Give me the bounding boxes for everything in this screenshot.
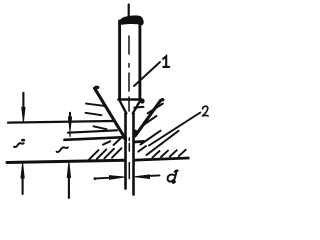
ink blob at left wall / pin junction bbox=[122, 133, 127, 142]
workpiece 2: left section hatch strokes bbox=[89, 150, 99, 160]
workpiece 2: hatch tick right wall middle bbox=[144, 116, 157, 125]
workpiece 2: hatch stroke from right surface end bbox=[141, 131, 161, 145]
ink blob at shoulder right corner bbox=[140, 98, 145, 103]
dimension l_a: lower arrow (points up) bbox=[22, 178, 24, 194]
label l_1 (rotated italic l with subscript) bbox=[14, 143, 24, 147]
workpiece 2: right countersink wall bbox=[135, 100, 163, 136]
workpiece 2: right near-pin hatch stroke bbox=[138, 146, 146, 152]
punch tool 1: cone right edge bbox=[133, 101, 141, 114]
dimension l_a: top extension line bbox=[8, 121, 113, 123]
workpiece 2: bottom surface left bbox=[7, 160, 125, 162]
dimension l: lower arrow (points up) bbox=[68, 178, 70, 198]
punch tool 1: pin left wall bbox=[124, 113, 127, 188]
workpiece 2: left countersink wall bbox=[95, 87, 125, 137]
label 2 bbox=[203, 106, 209, 116]
workpiece 2: hatch tick left of left wall (upper) bbox=[86, 104, 105, 106]
punch tool 1: shoulder line bbox=[118, 98, 141, 101]
workpiece 2: hatch stroke below surface near wall bbox=[103, 141, 110, 144]
dimension l_a: upper arrow (points down) bbox=[22, 93, 24, 108]
ink blob at right wall / pin junction bbox=[133, 130, 138, 136]
workpiece 2: hatch tick right wall upper bbox=[148, 104, 163, 114]
label l (rotated italic l) bbox=[57, 147, 68, 152]
dimension l: upper arrow (points down) bbox=[69, 113, 71, 118]
workpiece 2: right long hatch stroke bbox=[147, 131, 179, 155]
workpiece 2: right bottom surface ticks bbox=[153, 151, 160, 157]
punch tool 1: cone left edge bbox=[120, 101, 127, 114]
workpiece 2: hatch tick left of left wall (lower) bbox=[94, 126, 107, 129]
punch tool 1: pin right wall bbox=[132, 113, 135, 194]
label 1 bbox=[163, 56, 169, 67]
workpiece 2: top surface left bbox=[65, 137, 125, 140]
punch tool 1: centerline stub above cap bbox=[128, 5, 130, 18]
leader line for label 1 bbox=[134, 62, 160, 86]
label d bbox=[168, 171, 178, 183]
leader line for label 2 bbox=[149, 113, 200, 146]
punch tool 1: cylinder right wall bbox=[138, 21, 141, 100]
workpiece 2: horizontal tick right of cone bbox=[134, 106, 143, 109]
punch tool 1: top cap (heavy) bbox=[119, 16, 143, 25]
dimension d: right arrow (points left) bbox=[149, 174, 160, 177]
workpiece 2: top surface right (short) bbox=[134, 140, 144, 143]
workpiece 2: bottom surface right bbox=[135, 158, 189, 160]
dimension d: left arrow (points right) bbox=[95, 177, 111, 180]
workpiece 2: hatch tick left of left wall (middle) bbox=[86, 113, 102, 115]
dimension l: top extension line bbox=[68, 130, 117, 132]
centerline dash-dot segments bbox=[128, 36, 130, 179]
punch tool 1: cylinder left wall bbox=[118, 21, 121, 99]
